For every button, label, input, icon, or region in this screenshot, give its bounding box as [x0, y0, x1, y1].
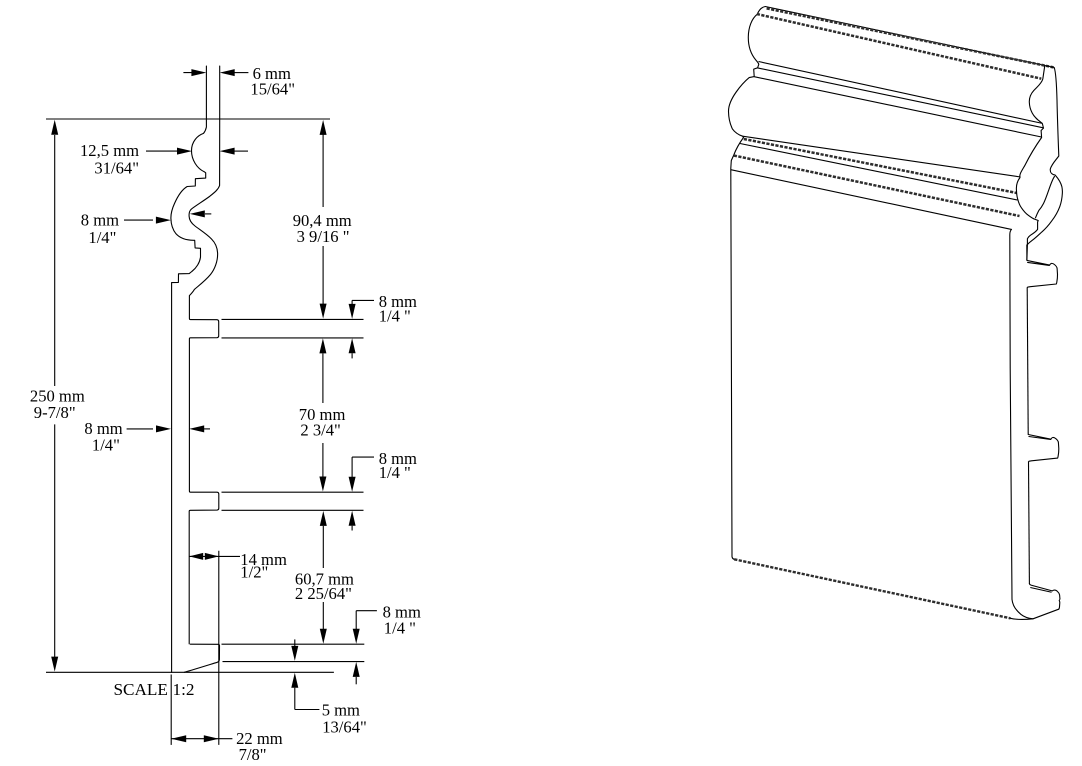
svg-text:2 3/4": 2 3/4" [300, 421, 340, 440]
svg-text:2 25/64": 2 25/64" [295, 584, 352, 603]
svg-text:1/4 ": 1/4 " [379, 463, 411, 482]
svg-text:1:2: 1:2 [173, 680, 195, 699]
svg-text:12,5 mm: 12,5 mm [80, 141, 139, 160]
svg-text:1/4": 1/4" [92, 435, 120, 454]
svg-text:3 9/16 ": 3 9/16 " [297, 227, 350, 246]
svg-text:7/8": 7/8" [239, 745, 267, 764]
svg-text:8 mm: 8 mm [81, 211, 119, 230]
svg-text:1/2": 1/2" [240, 563, 268, 582]
svg-text:15/64": 15/64" [250, 80, 295, 99]
svg-text:1/4 ": 1/4 " [379, 306, 411, 325]
svg-text:1/4": 1/4" [88, 228, 116, 247]
svg-text:9-7/8": 9-7/8" [34, 403, 76, 422]
svg-text:31/64": 31/64" [94, 159, 139, 178]
svg-text:SCALE: SCALE [114, 680, 168, 699]
svg-text:1/4 ": 1/4 " [384, 619, 416, 638]
svg-text:13/64": 13/64" [322, 717, 367, 736]
